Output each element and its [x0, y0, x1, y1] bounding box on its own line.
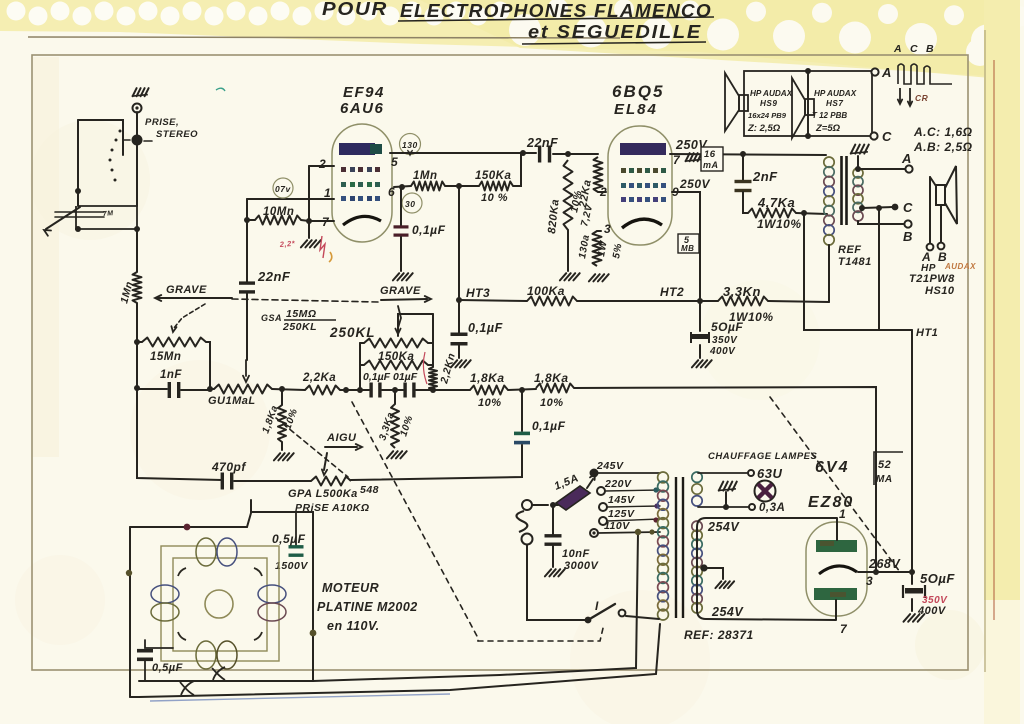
svg-text:63U: 63U — [757, 466, 782, 481]
svg-text:6AU6: 6AU6 — [340, 100, 384, 117]
dash chain — [232, 299, 378, 302]
svg-text:HT3: HT3 — [466, 286, 490, 300]
wire left column — [136, 229, 138, 272]
wire grid column — [246, 199, 248, 282]
svg-text:C: C — [882, 129, 892, 144]
tube 6BQ5 envelope — [608, 126, 672, 245]
wire C down — [878, 208, 880, 330]
cap 50uF HT2 — [699, 301, 701, 331]
svg-text:5OµF: 5OµF — [920, 571, 955, 586]
svg-text:GPA L500Ka: GPA L500Ka — [288, 488, 358, 500]
transformer core — [675, 477, 677, 618]
speaker box HS9 — [744, 71, 808, 136]
svg-text:7M: 7M — [103, 210, 114, 218]
svg-text:22nF: 22nF — [526, 136, 558, 150]
chassis hatch top — [850, 152, 868, 154]
HV connection frame — [697, 518, 837, 620]
chassis hatch mid — [685, 160, 701, 162]
svg-text:T1481: T1481 — [838, 256, 872, 268]
bent arrow to 15M — [174, 304, 205, 328]
terminal C mid — [871, 135, 872, 137]
wire input L — [78, 120, 123, 155]
cartridge lines — [55, 211, 104, 213]
svg-text:3000V: 3000V — [564, 560, 599, 572]
svg-text:3: 3 — [866, 574, 873, 588]
bent arrow to 250K — [398, 306, 401, 328]
cap 0,5uF top — [295, 512, 297, 545]
tube EF94 envelope — [332, 124, 392, 242]
svg-text:2,2*: 2,2* — [278, 239, 296, 249]
svg-text:C: C — [903, 200, 913, 215]
svg-text:7: 7 — [673, 153, 681, 167]
cap 0,1uF cathode — [400, 187, 402, 226]
capacitor 22nF tone — [239, 281, 255, 284]
svg-text:MA: MA — [876, 474, 893, 485]
motor coils left — [151, 585, 179, 603]
wire tap C — [859, 205, 865, 211]
speaker HS10 cone — [945, 166, 957, 224]
svg-text:HT2: HT2 — [660, 285, 684, 299]
svg-text:en 110V.: en 110V. — [327, 619, 380, 633]
svg-text:0,1µF: 0,1µF — [412, 223, 446, 237]
svg-text:PLATINE M2002: PLATINE M2002 — [317, 600, 418, 614]
svg-text:2nF: 2nF — [752, 169, 778, 184]
motor coils right — [258, 585, 286, 603]
speaker HS10 leads — [930, 177, 936, 186]
transformer secondary coil — [853, 168, 863, 178]
svg-text:B: B — [903, 229, 913, 244]
tube EZ80 envelope — [806, 522, 867, 616]
svg-text:220V: 220V — [604, 478, 632, 490]
EF94 plate bar — [339, 143, 375, 155]
svg-text:7: 7 — [840, 622, 848, 636]
svg-text:EF94: EF94 — [343, 84, 385, 101]
svg-text:10 %: 10 % — [481, 192, 508, 204]
rail HT3-HT2 — [459, 300, 527, 301]
EZ80 cathode arc — [819, 566, 857, 574]
svg-text:470pf: 470pf — [211, 460, 246, 474]
svg-text:254V: 254V — [707, 520, 740, 534]
svg-text:10%: 10% — [478, 397, 502, 409]
svg-text:250KL: 250KL — [282, 321, 317, 333]
transformer T1481 primary coil — [824, 157, 834, 167]
wire left vertical — [77, 120, 79, 206]
svg-text:10%: 10% — [540, 397, 564, 409]
svg-text:250KL: 250KL — [329, 325, 376, 340]
svg-text:1Mn: 1Mn — [413, 170, 438, 182]
svg-text:16: 16 — [704, 149, 716, 160]
box 52mA — [874, 452, 903, 485]
svg-text:0,1µF 01µF: 0,1µF 01µF — [363, 371, 418, 383]
6BQ5 cathode arc — [622, 219, 662, 228]
rails tone — [359, 343, 361, 390]
lamp — [755, 481, 776, 502]
svg-text:52: 52 — [878, 459, 891, 471]
svg-text:22nF: 22nF — [257, 269, 291, 284]
svg-text:15MΩ: 15MΩ — [286, 308, 317, 320]
svg-text:GU1MaL: GU1MaL — [208, 395, 256, 407]
svg-text:1500V: 1500V — [275, 560, 308, 572]
EF94 cathode arc — [343, 216, 381, 225]
x mark 2 — [212, 667, 225, 680]
svg-text:10nF: 10nF — [562, 548, 590, 560]
svg-text:130: 130 — [402, 140, 418, 150]
wire prise tap — [251, 500, 313, 681]
plate rail 250V — [390, 152, 523, 154]
cap 0,1uF HT3 — [451, 333, 468, 337]
cap 10nF — [552, 506, 554, 534]
heater wires — [698, 472, 747, 474]
motor coils top — [196, 538, 216, 566]
HV winding — [692, 521, 702, 531]
cap 0,1uF green — [521, 390, 523, 431]
cap 0,5uF bottom — [145, 640, 173, 648]
node 30v — [402, 193, 422, 213]
svg-text:0,5µF: 0,5µF — [152, 662, 183, 674]
box 5MB — [678, 234, 699, 253]
svg-text:POUR: POUR — [322, 0, 388, 19]
svg-text:150Ka: 150Ka — [378, 351, 414, 363]
dashed diagonal C — [770, 397, 900, 572]
prise stereo contact dot — [132, 135, 143, 146]
motor corner hooks — [178, 568, 262, 640]
plug wires — [533, 504, 548, 506]
svg-text:15Mn: 15Mn — [150, 351, 181, 363]
jack tip circle — [133, 104, 142, 113]
terminal A top — [871, 68, 878, 75]
motor bottom wire — [139, 680, 313, 682]
svg-text:6V4: 6V4 — [815, 459, 849, 476]
svg-text:STEREO: STEREO — [156, 129, 198, 140]
svg-text:0,1µF: 0,1µF — [468, 321, 503, 335]
node 130v — [400, 134, 421, 155]
svg-text:A: A — [921, 250, 931, 264]
svg-text:245V: 245V — [596, 460, 624, 472]
transformer core — [840, 156, 843, 225]
svg-text:2: 2 — [599, 185, 607, 199]
svg-text:548: 548 — [360, 484, 379, 496]
motor outer square — [161, 546, 279, 661]
HT3 vertical — [458, 186, 460, 333]
svg-text:Z=5Ω: Z=5Ω — [815, 123, 841, 134]
svg-text:5OµF: 5OµF — [711, 320, 743, 334]
speaker HS10 driver — [936, 185, 945, 205]
wire jack down — [136, 145, 138, 206]
cap 2nF — [742, 154, 744, 181]
plate wire 6BQ5 — [670, 154, 826, 155]
svg-text:HP AUDAX: HP AUDAX — [750, 89, 793, 98]
svg-text:GRAVE: GRAVE — [380, 285, 421, 297]
wire1 motor to 110V — [313, 533, 638, 681]
motor inner square — [173, 558, 267, 651]
long wire to EZ80 cathode — [574, 387, 876, 571]
speaker cone HS7 — [792, 78, 805, 138]
jack hatch — [132, 95, 148, 97]
svg-text:EL84: EL84 — [614, 101, 658, 118]
svg-text:A: A — [901, 151, 912, 166]
svg-text:1nF: 1nF — [160, 369, 182, 381]
svg-text:A: A — [881, 65, 892, 80]
svg-text:B: B — [926, 43, 934, 55]
motor center circle — [205, 590, 233, 618]
EF94 grid squares — [341, 167, 346, 172]
transformer primary coil — [658, 472, 669, 483]
dashed diagonal A — [276, 418, 348, 477]
svg-text:HT1: HT1 — [916, 327, 938, 339]
speaker cone HS9 — [725, 73, 739, 131]
svg-text:5: 5 — [391, 155, 398, 169]
node 07v — [273, 178, 293, 198]
svg-text:GRAVE: GRAVE — [166, 284, 207, 296]
svg-text:2: 2 — [318, 157, 326, 171]
svg-text:Z: 2,5Ω: Z: 2,5Ω — [747, 123, 781, 134]
6BQ5 plate bar — [620, 143, 666, 155]
svg-text:A.B: 2,5Ω: A.B: 2,5Ω — [913, 140, 973, 154]
wire tap B — [858, 221, 904, 224]
svg-text:0,5µF: 0,5µF — [272, 532, 306, 546]
pin9 screen wire — [672, 192, 700, 298]
svg-text:REF: REF — [838, 244, 862, 256]
x mark 1 — [180, 681, 194, 695]
pot 250K — [398, 314, 433, 336]
top film strip — [0, 0, 990, 78]
ground EF94 cathode — [308, 222, 310, 238]
frame border — [32, 55, 968, 670]
svg-text:T21PW8: T21PW8 — [909, 273, 955, 285]
svg-text:1: 1 — [839, 507, 846, 521]
svg-text:07v: 07v — [275, 184, 291, 194]
svg-text:145V: 145V — [608, 494, 635, 506]
svg-text:et SEGUEDILLE: et SEGUEDILLE — [528, 22, 702, 42]
svg-text:MB: MB — [681, 244, 694, 253]
wire pin2 to node — [308, 166, 310, 221]
svg-text:400V: 400V — [709, 346, 736, 357]
heater ground — [718, 489, 736, 491]
svg-text:2,2Ka: 2,2Ka — [302, 372, 336, 384]
wire primary bottom — [828, 245, 830, 302]
svg-text:250V: 250V — [679, 177, 711, 191]
svg-text:T 12 PBB: T 12 PBB — [812, 111, 847, 120]
svg-text:400V: 400V — [917, 605, 947, 617]
motor left wire — [129, 527, 131, 697]
svg-text:6BQ5: 6BQ5 — [612, 82, 664, 101]
top rule — [28, 37, 620, 38]
svg-text:3: 3 — [604, 222, 611, 236]
svg-text:A: A — [893, 43, 902, 55]
svg-text:AIGU: AIGU — [326, 432, 357, 444]
heater winding — [692, 472, 702, 482]
svg-text:268V: 268V — [868, 557, 901, 571]
svg-text:CR: CR — [915, 93, 929, 103]
speaker box HS7 — [808, 71, 872, 136]
svg-text:254V: 254V — [711, 605, 744, 619]
svg-text:1,8Ka: 1,8Ka — [470, 371, 505, 385]
svg-text:PRISE,: PRISE, — [145, 117, 179, 128]
svg-text:MOTEUR: MOTEUR — [322, 581, 379, 595]
svg-text:mA: mA — [703, 160, 719, 170]
dashed diagonal B — [352, 402, 478, 641]
svg-text:1: 1 — [324, 186, 331, 200]
6BQ5 grids — [621, 168, 626, 173]
resistor 1M vertical — [133, 272, 142, 303]
svg-text:AUDAX: AUDAX — [944, 262, 976, 271]
right margin band — [984, 0, 1020, 680]
mains plug — [522, 500, 532, 510]
svg-text:REF: 28371: REF: 28371 — [684, 628, 754, 642]
svg-text:110V: 110V — [604, 520, 630, 532]
wire motor top — [130, 513, 251, 527]
svg-text:EZ80: EZ80 — [808, 494, 854, 511]
cap 50uF out — [911, 572, 913, 584]
cartridge box — [76, 206, 137, 229]
wire jack — [136, 112, 138, 135]
HT1 vertical — [911, 330, 913, 571]
selector taps — [590, 469, 599, 478]
svg-text:HS10: HS10 — [925, 285, 955, 297]
svg-text:30: 30 — [405, 199, 415, 209]
svg-text:16x24 PB9: 16x24 PB9 — [748, 111, 787, 120]
svg-text:150Ka: 150Ka — [475, 170, 511, 182]
EZ80 plates — [816, 540, 857, 552]
center tap — [700, 564, 707, 571]
svg-text:125V: 125V — [608, 508, 635, 520]
dotted link — [119, 130, 122, 133]
svg-text:HS7: HS7 — [826, 99, 843, 108]
svg-text:350V: 350V — [712, 335, 738, 346]
svg-text:0,1µF: 0,1µF — [532, 419, 566, 433]
svg-text:CHAUFFAGE LAMPES: CHAUFFAGE LAMPES — [708, 451, 818, 462]
wire tap A — [858, 168, 905, 170]
svg-text:HP AUDAX: HP AUDAX — [814, 89, 857, 98]
svg-text:C: C — [910, 43, 918, 55]
waveform — [898, 64, 952, 84]
wire 4,7K down — [804, 213, 912, 330]
pot 500K — [311, 477, 351, 486]
box 16mA — [701, 147, 723, 171]
motor coils bottom — [196, 641, 216, 669]
svg-text:1W10%: 1W10% — [757, 217, 802, 231]
svg-text:A.C: 1,6Ω: A.C: 1,6Ω — [913, 125, 973, 139]
switch I — [527, 545, 586, 620]
svg-text:0,3A: 0,3A — [759, 502, 785, 514]
svg-text:HS9: HS9 — [760, 99, 777, 108]
long bottom wires — [139, 624, 660, 697]
svg-text:I: I — [595, 599, 599, 613]
svg-text:100Ka: 100Ka — [527, 284, 565, 298]
cartridge arrow — [46, 207, 80, 229]
svg-text:GSA: GSA — [261, 313, 282, 323]
